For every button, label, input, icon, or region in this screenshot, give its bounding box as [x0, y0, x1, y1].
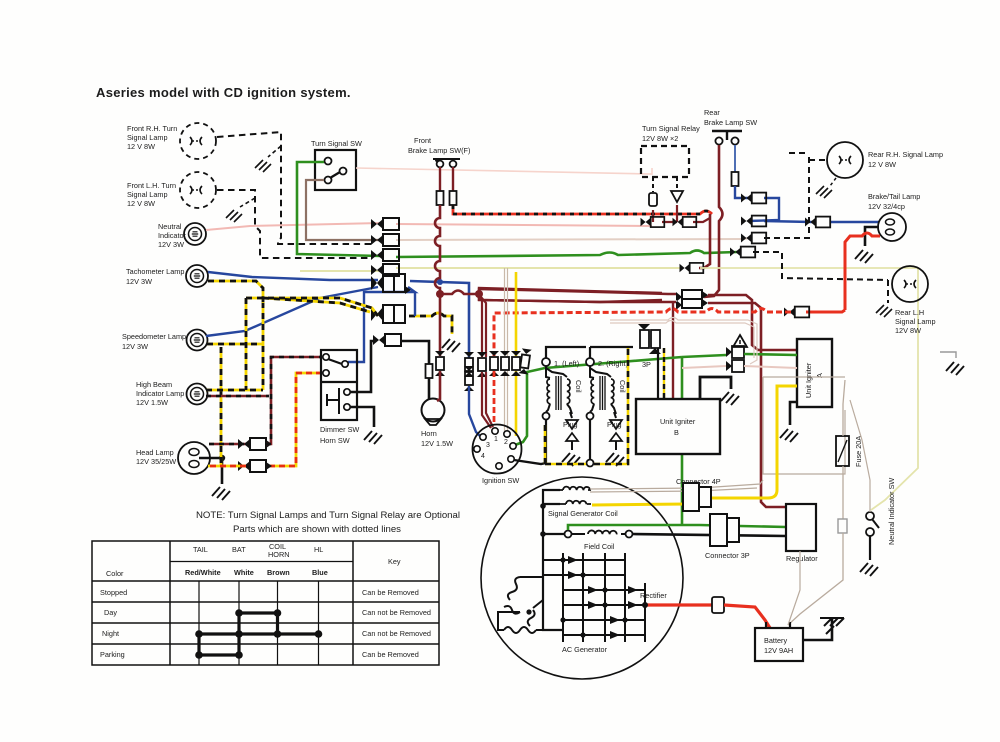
svg-text:1: 1 [494, 436, 498, 443]
lamp head [178, 442, 210, 474]
wire black coil1 lower to boundary [545, 420, 547, 463]
label dimmer SW horn SW [320, 425, 359, 445]
green inline connector [518, 348, 531, 374]
connector rear blue b [741, 216, 766, 227]
connector 3P [638, 324, 661, 369]
lamp rear RH signal [827, 142, 863, 178]
label rear LH signal lamp [895, 308, 936, 335]
connector head lamp maroon [238, 438, 272, 450]
wire pale white to dashed RH [745, 238, 748, 239]
svg-text:12V 3W: 12V 3W [158, 240, 184, 249]
battery box [755, 622, 803, 661]
yb dashed boundary box coils [545, 347, 628, 464]
wire yb vertical x246 [245, 298, 248, 390]
svg-text:12V 1.5W: 12V 1.5W [136, 398, 168, 407]
lamp high beam indicator [187, 384, 208, 405]
svg-text:Can be Removed: Can be Removed [362, 588, 419, 597]
svg-text:Turn Signal Relay: Turn Signal Relay [642, 124, 700, 133]
svg-text:Front L.H. Turn: Front L.H. Turn [127, 181, 176, 190]
svg-text:Plug: Plug [607, 420, 622, 429]
label coil 1 [542, 358, 579, 368]
wire yb connector out to ground [409, 313, 460, 352]
unit igniter A box [797, 339, 832, 407]
svg-text:12V 3W: 12V 3W [126, 277, 152, 286]
svg-text:Battery: Battery [764, 636, 787, 645]
svg-text:12 V 8W: 12 V 8W [127, 199, 155, 208]
fuse 20A [836, 436, 849, 466]
svg-text:Front R.H. Turn: Front R.H. Turn [127, 124, 177, 133]
svg-text:12V 32/4cp: 12V 32/4cp [868, 202, 905, 211]
svg-text:HL: HL [314, 545, 323, 554]
wire blue rear brake to tail [732, 145, 880, 222]
connector green unit A [726, 346, 744, 358]
label brake tail lamp [868, 192, 920, 211]
svg-text:Signal Lamp: Signal Lamp [127, 190, 168, 199]
wire maroon vertical x482 [479, 294, 486, 357]
unit igniter B box [636, 399, 720, 454]
svg-text:Unit Igniter: Unit Igniter [660, 417, 696, 426]
svg-text:Rear L.H: Rear L.H [895, 308, 924, 317]
field coil [565, 530, 633, 537]
wire red rectifier out [642, 602, 712, 608]
connector horn row [373, 334, 401, 346]
svg-text:Rectifier: Rectifier [640, 591, 667, 600]
wire blue stub x415 [414, 292, 416, 316]
connector green rear [730, 247, 755, 258]
svg-text:Connector 3P: Connector 3P [705, 551, 750, 560]
svg-text:Brake/Tail Lamp: Brake/Tail Lamp [868, 192, 920, 201]
pale inline connector [500, 351, 510, 376]
wire pale yellow row [300, 268, 680, 271]
svg-text:Signal Lamp: Signal Lamp [895, 317, 936, 326]
wire green to unit A [682, 354, 797, 357]
rear brake lamp switch [712, 131, 742, 145]
svg-text:High Beam: High Beam [136, 380, 172, 389]
connector pale unit A [726, 360, 744, 372]
svg-text:Neutral: Neutral [158, 222, 182, 231]
wire yb high beam row [206, 389, 263, 392]
lamp front RH turn signal [180, 123, 216, 159]
lamp rear LH signal [892, 266, 928, 302]
battery ground [803, 618, 844, 640]
label Front L.H. Turn Signal Lamp [127, 181, 176, 208]
head lamp ground wire [199, 455, 230, 500]
wire maroon to dimmer [266, 357, 322, 444]
lamp tachometer [186, 265, 208, 287]
label Neutral Indicator [158, 222, 187, 249]
connector 3P gen [710, 514, 739, 546]
svg-text:Signal Lamp: Signal Lamp [127, 133, 168, 142]
wire maroon branch to unit igniter B [672, 302, 674, 399]
wire maroon relay row 222 [653, 205, 710, 222]
lamp speedometer [187, 330, 208, 351]
wire maroon head lamp main beam [209, 443, 246, 446]
connector yb double [371, 305, 405, 323]
wire yellow to signal coil [592, 504, 688, 505]
svg-text:Key: Key [388, 557, 401, 566]
wire red connector to ignition [493, 371, 496, 425]
wire orange to head lamp [208, 465, 246, 468]
ignition coil 1 [543, 366, 584, 420]
svg-text:Speedometer Lamp: Speedometer Lamp [122, 332, 186, 341]
svg-text:B: B [674, 428, 679, 437]
wire yellow vertical x516 [515, 272, 518, 436]
table connection night [195, 630, 322, 638]
svg-text:Dimmer SW: Dimmer SW [320, 425, 359, 434]
ignition switch [473, 425, 522, 474]
rectifier diode grid [543, 553, 648, 642]
svg-text:White: White [234, 568, 254, 577]
connector blue double [371, 274, 411, 294]
red inline connector x494 [489, 351, 499, 376]
wire black 3P to unit igniter B [658, 348, 664, 398]
wire maroon pair to rear [479, 288, 662, 302]
connector red battery [712, 597, 724, 613]
svg-text:12 V 8W: 12 V 8W [127, 142, 155, 151]
connector pale yellow row [371, 264, 399, 276]
connector pink row [371, 218, 399, 230]
wire red striped main row 312 [806, 310, 845, 312]
svg-text:3P: 3P [642, 360, 651, 369]
thin wire neutral SW up [850, 400, 870, 512]
svg-text:Horn SW: Horn SW [320, 436, 350, 445]
double connector mid maroon [676, 290, 708, 310]
label Front R.H. Turn Signal Lamp [127, 124, 177, 151]
wire maroon rear brake drop [704, 145, 723, 297]
label High Beam Indicator Lamp [136, 380, 184, 407]
svg-text:Ignition SW: Ignition SW [482, 476, 519, 485]
thin pale pair row [610, 318, 757, 365]
wire pink neutral row [206, 223, 652, 230]
relay dashed drops [649, 177, 683, 206]
wire yb vertical x221 [220, 347, 223, 466]
connector relay row b [673, 217, 697, 227]
wire yellow unit A loop [702, 386, 797, 498]
svg-text:Night: Night [102, 629, 119, 638]
unit igniter B ground [700, 377, 739, 405]
turn signal SW box [315, 150, 356, 190]
label Tachometer Lamp [126, 267, 184, 286]
svg-text:Day: Day [104, 608, 117, 617]
svg-text:Aseries model with CD ignition: Aseries model with CD ignition system. [96, 85, 351, 100]
wire pale pink to unit A [682, 366, 797, 368]
front LH turn dashed wire [217, 190, 371, 258]
wire signal coil left [540, 490, 563, 630]
wire maroon connector to ignition pin [437, 371, 440, 401]
key table grid [92, 541, 439, 665]
wire blue x469 lower [469, 386, 481, 437]
wire faint pink relay feed [356, 168, 652, 174]
wire pale white row [396, 239, 745, 240]
table connection day [235, 609, 281, 617]
svg-text:Head Lamp: Head Lamp [136, 448, 174, 457]
svg-text:Indicator: Indicator [158, 231, 187, 240]
svg-text:Blue: Blue [312, 568, 328, 577]
label coil 2 [586, 358, 628, 368]
wire pale yellow right run [700, 268, 918, 510]
wire maroon unit A feed [708, 295, 797, 350]
wire black field coil left [543, 533, 564, 535]
label turn signal relay [642, 124, 700, 143]
svg-text:Neutral Indicator SW: Neutral Indicator SW [887, 478, 896, 545]
wire maroon x482 to ignition [482, 372, 493, 428]
svg-text:Unit Igniter: Unit Igniter [804, 362, 813, 398]
connector 4P [683, 483, 711, 511]
unit igniter A ground [780, 402, 798, 442]
ignition coil 2 [587, 366, 628, 420]
wire blue tachometer [208, 272, 378, 280]
signal generator coil b [560, 501, 591, 505]
wire maroon striped stub corner [699, 214, 710, 268]
yellow inline connector [511, 351, 521, 376]
wire maroon dash high beam row [206, 395, 269, 397]
wire black horn feed [350, 341, 429, 392]
svg-text:2. (Right): 2. (Right) [598, 359, 628, 368]
label rear RH signal lamp [868, 150, 943, 169]
svg-text:Can not be Removed: Can not be Removed [362, 629, 431, 638]
svg-text:Coil: Coil [574, 380, 583, 393]
svg-text:Field Coil: Field Coil [584, 542, 615, 551]
wire blue speedometer [206, 287, 378, 336]
svg-text:Can not be Removed: Can not be Removed [362, 608, 431, 617]
dimmer SW horn SW box [321, 350, 357, 420]
svg-text:Brake Lamp SW(F): Brake Lamp SW(F) [408, 146, 470, 155]
svg-text:12V 3W: 12V 3W [122, 342, 148, 351]
wire red striped row to ignition [494, 309, 791, 357]
AC generator circle [481, 477, 683, 679]
connector green row [371, 249, 399, 261]
blue inline connector x469 [464, 352, 474, 391]
wire green field coil [568, 525, 786, 530]
wire black ignition to coil1 [514, 460, 546, 464]
horn [422, 399, 445, 426]
thin wire fuse bottom [788, 466, 847, 625]
tail lamp ground [855, 227, 879, 263]
wire brown from turn signal SW [306, 180, 381, 240]
signal generator coil a [560, 487, 591, 491]
front brake lamp switch [433, 158, 460, 167]
svg-text:Turn Signal SW: Turn Signal SW [311, 139, 362, 148]
wire green vertical x682 [681, 357, 684, 525]
svg-text:Tachometer Lamp: Tachometer Lamp [126, 267, 184, 276]
svg-text:Color: Color [106, 569, 124, 578]
table connection parking [195, 651, 243, 659]
lamp brake tail [878, 213, 906, 241]
svg-text:Brake Lamp SW: Brake Lamp SW [704, 118, 757, 127]
wire yb vertical x263 [262, 302, 265, 390]
svg-text:12V 35/25W: 12V 35/25W [136, 457, 176, 466]
thin wire battery to regulator [788, 551, 800, 625]
rear RH hatch [816, 178, 836, 198]
connector brown row [371, 234, 399, 246]
thin wire fuse top [843, 380, 845, 436]
wire maroon down to ignition [439, 294, 442, 356]
svg-text:Coil: Coil [618, 380, 627, 393]
svg-text:BAT: BAT [232, 545, 246, 554]
wire pale vertical x505 [505, 268, 508, 431]
wire red tail lamp down [845, 233, 880, 310]
svg-text:Stopped: Stopped [100, 588, 127, 597]
wire dashed to rear LH lamp [753, 252, 893, 303]
wire green from turn signal SW [297, 162, 737, 257]
wire maroon wiggly vertical [435, 205, 440, 292]
wire black coil tops to 3P [546, 347, 633, 358]
svg-text:Can be Removed: Can be Removed [362, 650, 419, 659]
generator 3phase coils [498, 577, 563, 633]
maroon inline connector [435, 351, 445, 376]
svg-text:12V 1.5W: 12V 1.5W [421, 439, 453, 448]
svg-text:12V 9AH: 12V 9AH [764, 646, 793, 655]
wire dashed to rear RH lamp [764, 153, 827, 238]
wire black dimmer ground [350, 407, 382, 444]
connector rear blue c [805, 217, 830, 228]
svg-text:Indicator Lamp: Indicator Lamp [136, 389, 184, 398]
svg-text:Connector 4P: Connector 4P [676, 477, 721, 486]
wire blue dimmer branch [348, 287, 415, 362]
svg-text:Signal Generator Coil: Signal Generator Coil [548, 509, 618, 518]
svg-text:2: 2 [504, 439, 508, 446]
front LH hatch ground [226, 198, 255, 222]
maroon x482 inline connector [477, 352, 487, 377]
turn signal relay dashed box [641, 146, 689, 177]
label rear brake lamp SW [704, 108, 757, 127]
lamp front LH turn signal [180, 172, 216, 208]
table header labels [106, 542, 401, 578]
horn inline fuse [426, 364, 433, 378]
wire yb speedometer row [207, 343, 263, 346]
svg-text:12 V 8W: 12 V 8W [868, 160, 896, 169]
connector relay row a [641, 217, 665, 227]
coil 2 plug [606, 412, 624, 466]
wire yb tach branch [208, 281, 263, 303]
label horn [421, 429, 453, 448]
thin pair signal coil to unit A [590, 480, 763, 492]
label front brake lamp switch [408, 136, 470, 155]
table wire columns [199, 581, 319, 665]
svg-text:Regulator: Regulator [786, 554, 818, 563]
svg-text:HORN: HORN [268, 550, 290, 559]
ground mid right [940, 352, 964, 375]
connector head lamp orange [238, 460, 272, 472]
wire black field coil row [633, 534, 786, 536]
wire orange low beam from dimmer [266, 373, 322, 466]
label Speedometer Lamp [122, 332, 186, 351]
front RH hatch ground [255, 146, 281, 172]
warning triangle [733, 335, 747, 347]
wire yb upper row 298 [246, 298, 378, 316]
lamp neutral indicator [184, 223, 206, 245]
svg-text:Red/White: Red/White [185, 568, 221, 577]
svg-text:NOTE: Turn Signal Lamps and T: NOTE: Turn Signal Lamps and Turn Signal … [196, 510, 460, 521]
svg-text:Parts which are shown with dot: Parts which are shown with dotted lines [233, 524, 401, 535]
table row labels [100, 588, 431, 659]
wire blue main row to x469 [410, 279, 469, 358]
connector rear blue a [741, 193, 766, 204]
regulator box [786, 504, 816, 551]
wire maroon pair to connector [479, 289, 676, 302]
wire black coil2 feed [587, 420, 594, 467]
wire maroon regulator feed [708, 303, 786, 507]
svg-text:3: 3 [486, 442, 490, 449]
svg-text:Front: Front [414, 136, 431, 145]
svg-text:Rear: Rear [704, 108, 720, 117]
svg-text:Parking: Parking [100, 650, 125, 659]
svg-text:12V 8W: 12V 8W [895, 326, 921, 335]
label Head Lamp [136, 448, 176, 466]
table connection bars vertical [199, 613, 278, 655]
connector pale RH [741, 233, 766, 244]
maroon junction dots [436, 290, 483, 298]
wire striped red black row 214 [453, 205, 712, 214]
svg-text:12V 8W ×2: 12V 8W ×2 [642, 134, 678, 143]
front brake fuses [437, 167, 457, 205]
rear LH hatch [876, 305, 892, 317]
svg-text:Rear R.H. Signal Lamp: Rear R.H. Signal Lamp [868, 150, 943, 159]
NOTE text [196, 510, 460, 535]
svg-text:Brown: Brown [267, 568, 290, 577]
coil 1 plug [562, 412, 580, 466]
svg-text:AC Generator: AC Generator [562, 645, 608, 654]
neutral indicator SW [860, 512, 879, 576]
wire red to battery [724, 605, 770, 628]
thin harness outline unit A [763, 377, 845, 474]
wire green vertical x526 [515, 357, 682, 445]
svg-text:4: 4 [481, 453, 485, 460]
svg-text:TAIL: TAIL [193, 545, 208, 554]
connector pale yellow mid [680, 263, 704, 273]
connector red row [784, 307, 809, 318]
svg-text:1. (Left): 1. (Left) [554, 359, 579, 368]
svg-text:Horn: Horn [421, 429, 437, 438]
front RH turn dashed wire [217, 132, 371, 244]
wire black horn drop [428, 378, 431, 399]
svg-text:Plug: Plug [563, 420, 578, 429]
